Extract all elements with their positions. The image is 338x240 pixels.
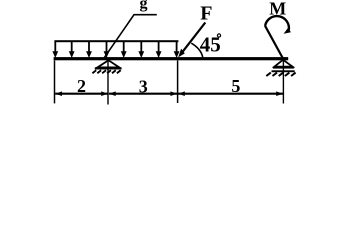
extension line at left end A bbox=[54, 61, 56, 104]
load arrow 8 bbox=[174, 41, 180, 58]
support D hatching bbox=[266, 73, 295, 76]
dim arrow left of 5 bbox=[178, 91, 185, 96]
support D ground line bbox=[272, 70, 295, 72]
load arrow 5 bbox=[121, 41, 127, 58]
dim arrow left of 3 bbox=[109, 91, 116, 96]
dim arrow right of 3 bbox=[170, 91, 177, 96]
force F arrowhead bbox=[178, 49, 185, 58]
svg-text:2: 2 bbox=[77, 76, 86, 96]
support B hatching bbox=[92, 70, 120, 73]
moment arc bbox=[265, 16, 289, 30]
force F line bbox=[181, 23, 205, 54]
load arrow 6 bbox=[138, 41, 144, 58]
degree symbol bbox=[217, 34, 220, 37]
load arrow 4 bbox=[104, 41, 110, 58]
dimension line 5 bbox=[178, 93, 283, 95]
moment tail line bbox=[265, 26, 284, 60]
svg-text:5: 5 bbox=[231, 76, 240, 96]
beam bbox=[54, 57, 289, 60]
load arrow 1 bbox=[52, 41, 58, 58]
dimension line 3 bbox=[109, 93, 177, 95]
load arrow 7 bbox=[156, 41, 162, 58]
load arrow 3 bbox=[86, 41, 92, 58]
extension line at point C (force F) bbox=[177, 61, 179, 104]
support B base line bbox=[95, 67, 122, 69]
roller support D (right) triangle bbox=[274, 60, 292, 67]
pin support B (middle) triangle bbox=[98, 60, 120, 67]
moment arrowhead bbox=[284, 28, 291, 34]
extension line at support D bbox=[282, 61, 284, 104]
support D base line bbox=[273, 67, 294, 69]
dim arrow right of 5 bbox=[276, 91, 283, 96]
extension line at support B bbox=[107, 61, 109, 105]
distributed load g top line bbox=[54, 40, 178, 42]
load arrow 2 bbox=[69, 41, 75, 58]
leader line for g bbox=[105, 15, 157, 58]
dimension line 2 bbox=[55, 93, 108, 95]
dim arrow left of 2 bbox=[55, 91, 62, 96]
svg-text:F: F bbox=[200, 3, 212, 25]
svg-text:g: g bbox=[140, 0, 148, 12]
svg-text:3: 3 bbox=[139, 76, 148, 96]
dim arrow right of 2 bbox=[101, 91, 108, 96]
45 degree arc bbox=[191, 43, 202, 57]
